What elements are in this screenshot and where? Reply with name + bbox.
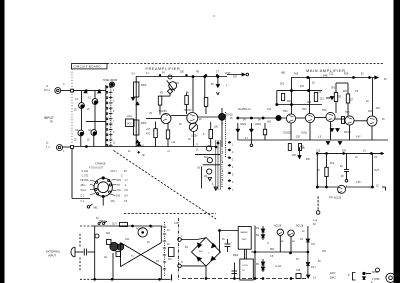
svg-text:R23: R23 <box>307 102 312 104</box>
svg-text:AC: AC <box>104 256 108 259</box>
svg-text:OC35: OC35 <box>242 265 248 267</box>
svg-text:AC128: AC128 <box>296 225 304 228</box>
svg-text:9V: 9V <box>384 79 387 81</box>
svg-text:2K2: 2K2 <box>330 163 335 165</box>
svg-text:SPKR: SPKR <box>372 272 379 274</box>
svg-text:C31: C31 <box>117 190 122 192</box>
svg-text:T 1: T 1 <box>46 145 50 149</box>
svg-text:LOG: LOG <box>127 116 132 118</box>
svg-text:9V: 9V <box>162 73 165 75</box>
svg-text:TR7 AC128: TR7 AC128 <box>329 197 342 200</box>
svg-text:2K2: 2K2 <box>280 84 285 86</box>
svg-text:PU 1: PU 1 <box>44 88 50 92</box>
svg-text:INPUT: INPUT <box>48 254 56 258</box>
svg-text:CIRCUIT BOARD: CIRCUIT BOARD <box>74 65 102 69</box>
svg-text:R21: R21 <box>287 101 292 103</box>
svg-text:2K: 2K <box>317 170 320 172</box>
svg-text:TR2 BC: TR2 BC <box>184 110 193 112</box>
svg-text:R24: R24 <box>344 74 349 76</box>
svg-text:1M: 1M <box>204 176 207 178</box>
svg-text:5000: 5000 <box>233 255 239 257</box>
svg-text:MAINS: MAINS <box>241 231 248 234</box>
svg-text:5 V: 5 V <box>132 74 136 76</box>
svg-text:OC: OC <box>374 157 378 159</box>
svg-text:OUT: OUT <box>374 170 379 172</box>
svg-text:AC127: AC127 <box>136 228 144 231</box>
svg-text:C25: C25 <box>296 270 301 272</box>
svg-text:C RANGE: C RANGE <box>95 163 106 166</box>
svg-text:548: 548 <box>323 73 328 77</box>
svg-text:0A: 0A <box>258 119 261 122</box>
svg-text:1+1/2: 1+1/2 <box>275 266 282 268</box>
svg-text:2N3: 2N3 <box>368 111 373 113</box>
svg-text:C15: C15 <box>174 223 179 225</box>
svg-text:537: 537 <box>233 76 238 79</box>
svg-text:50HZ: 50HZ <box>330 278 336 280</box>
svg-text:C51: C51 <box>111 201 116 203</box>
svg-text:0.47: 0.47 <box>356 137 361 139</box>
svg-text:240V: 240V <box>242 239 248 241</box>
svg-text:TONE 1W/5W: TONE 1W/5W <box>103 80 119 82</box>
svg-text:SH1: SH1 <box>117 180 122 182</box>
svg-text:OC81D: OC81D <box>283 133 291 135</box>
svg-text:25.1: 25.1 <box>320 99 325 101</box>
svg-text:+CT: +CT <box>146 129 151 131</box>
svg-text:R41: R41 <box>106 233 111 235</box>
svg-text:OUT: OUT <box>225 71 231 75</box>
svg-text:AB1: AB1 <box>281 72 286 75</box>
svg-text:D1.7: D1.7 <box>311 267 317 269</box>
svg-text:FB P2A: FB P2A <box>81 179 89 182</box>
svg-text:MIC: MIC <box>94 208 99 210</box>
svg-text:OC81: OC81 <box>301 133 308 135</box>
svg-text:TR4: TR4 <box>302 109 307 111</box>
svg-text:R27: R27 <box>349 100 354 102</box>
svg-text:PREAMPLIFIER: PREAMPLIFIER <box>146 67 181 71</box>
svg-text:C GT2: C GT2 <box>82 175 89 177</box>
svg-text:25+25UF 2x: 25+25UF 2x <box>238 109 252 111</box>
svg-text:1K: 1K <box>312 83 315 85</box>
svg-text:1u25V: 1u25V <box>191 136 198 138</box>
svg-text:1K5: 1K5 <box>127 124 132 126</box>
svg-text:1N: 1N <box>300 239 303 241</box>
svg-text:500K: 500K <box>141 123 147 125</box>
svg-text:TONE: TONE <box>99 221 106 223</box>
svg-text:0A: 0A <box>243 119 246 122</box>
svg-text:INPUT: INPUT <box>44 116 54 120</box>
svg-text:W LC: W LC <box>81 190 87 192</box>
svg-text:PU: PU <box>50 122 54 124</box>
svg-text:3K3: 3K3 <box>331 88 336 90</box>
svg-text:R19: R19 <box>294 74 299 76</box>
svg-text:500K: 500K <box>141 85 147 87</box>
svg-text:25+25: 25+25 <box>226 115 233 117</box>
svg-text:FC1 T: FC1 T <box>111 171 118 173</box>
svg-text:1A: 1A <box>363 150 366 153</box>
svg-text:1K: 1K <box>296 259 299 261</box>
svg-text:C 1G1: C 1G1 <box>82 171 89 173</box>
svg-text:OA81: OA81 <box>240 123 247 126</box>
svg-text:ON/OFF: ON/OFF <box>121 226 130 228</box>
svg-text:F OU UI OUT: F OU UI OUT <box>89 167 104 169</box>
svg-text:C17: C17 <box>311 244 316 246</box>
svg-text:AB L: AB L <box>81 184 87 187</box>
svg-text:D3 D4: D3 D4 <box>344 132 351 134</box>
svg-text:TR5: TR5 <box>322 110 327 112</box>
svg-text:EXTERNAL: EXTERNAL <box>46 250 61 254</box>
svg-text:0.25: 0.25 <box>356 182 361 184</box>
svg-text:1K: 1K <box>188 139 191 141</box>
svg-text:16V: 16V <box>322 251 327 253</box>
svg-text:CUT: CUT <box>112 224 117 226</box>
svg-text:AC128: AC128 <box>274 225 282 228</box>
svg-text:3 OHM: 3 OHM <box>372 279 379 281</box>
svg-text:C13: C13 <box>317 92 322 94</box>
svg-text:C12: C12 <box>329 74 334 76</box>
svg-text:220V: 220V <box>330 273 336 275</box>
svg-text:TR3: TR3 <box>283 111 288 113</box>
svg-text:0.5A: 0.5A <box>313 219 318 222</box>
svg-text:C15: C15 <box>316 151 321 153</box>
svg-text:1K0: 1K0 <box>267 122 272 124</box>
svg-text:OA81: OA81 <box>255 123 262 126</box>
svg-text:TR6: TR6 <box>345 112 350 114</box>
svg-text:R51: R51 <box>270 249 275 251</box>
svg-text:MAIN AMPLIFIER: MAIN AMPLIFIER <box>306 68 346 73</box>
svg-text:25V: 25V <box>342 151 347 153</box>
svg-text:TR1 BC: TR1 BC <box>159 111 168 113</box>
svg-text:C21: C21 <box>125 239 130 241</box>
svg-text:C41: C41 <box>116 195 121 197</box>
svg-text:2A: 2A <box>167 243 170 246</box>
svg-text:R25: R25 <box>337 97 342 99</box>
svg-text:R31: R31 <box>300 147 305 149</box>
